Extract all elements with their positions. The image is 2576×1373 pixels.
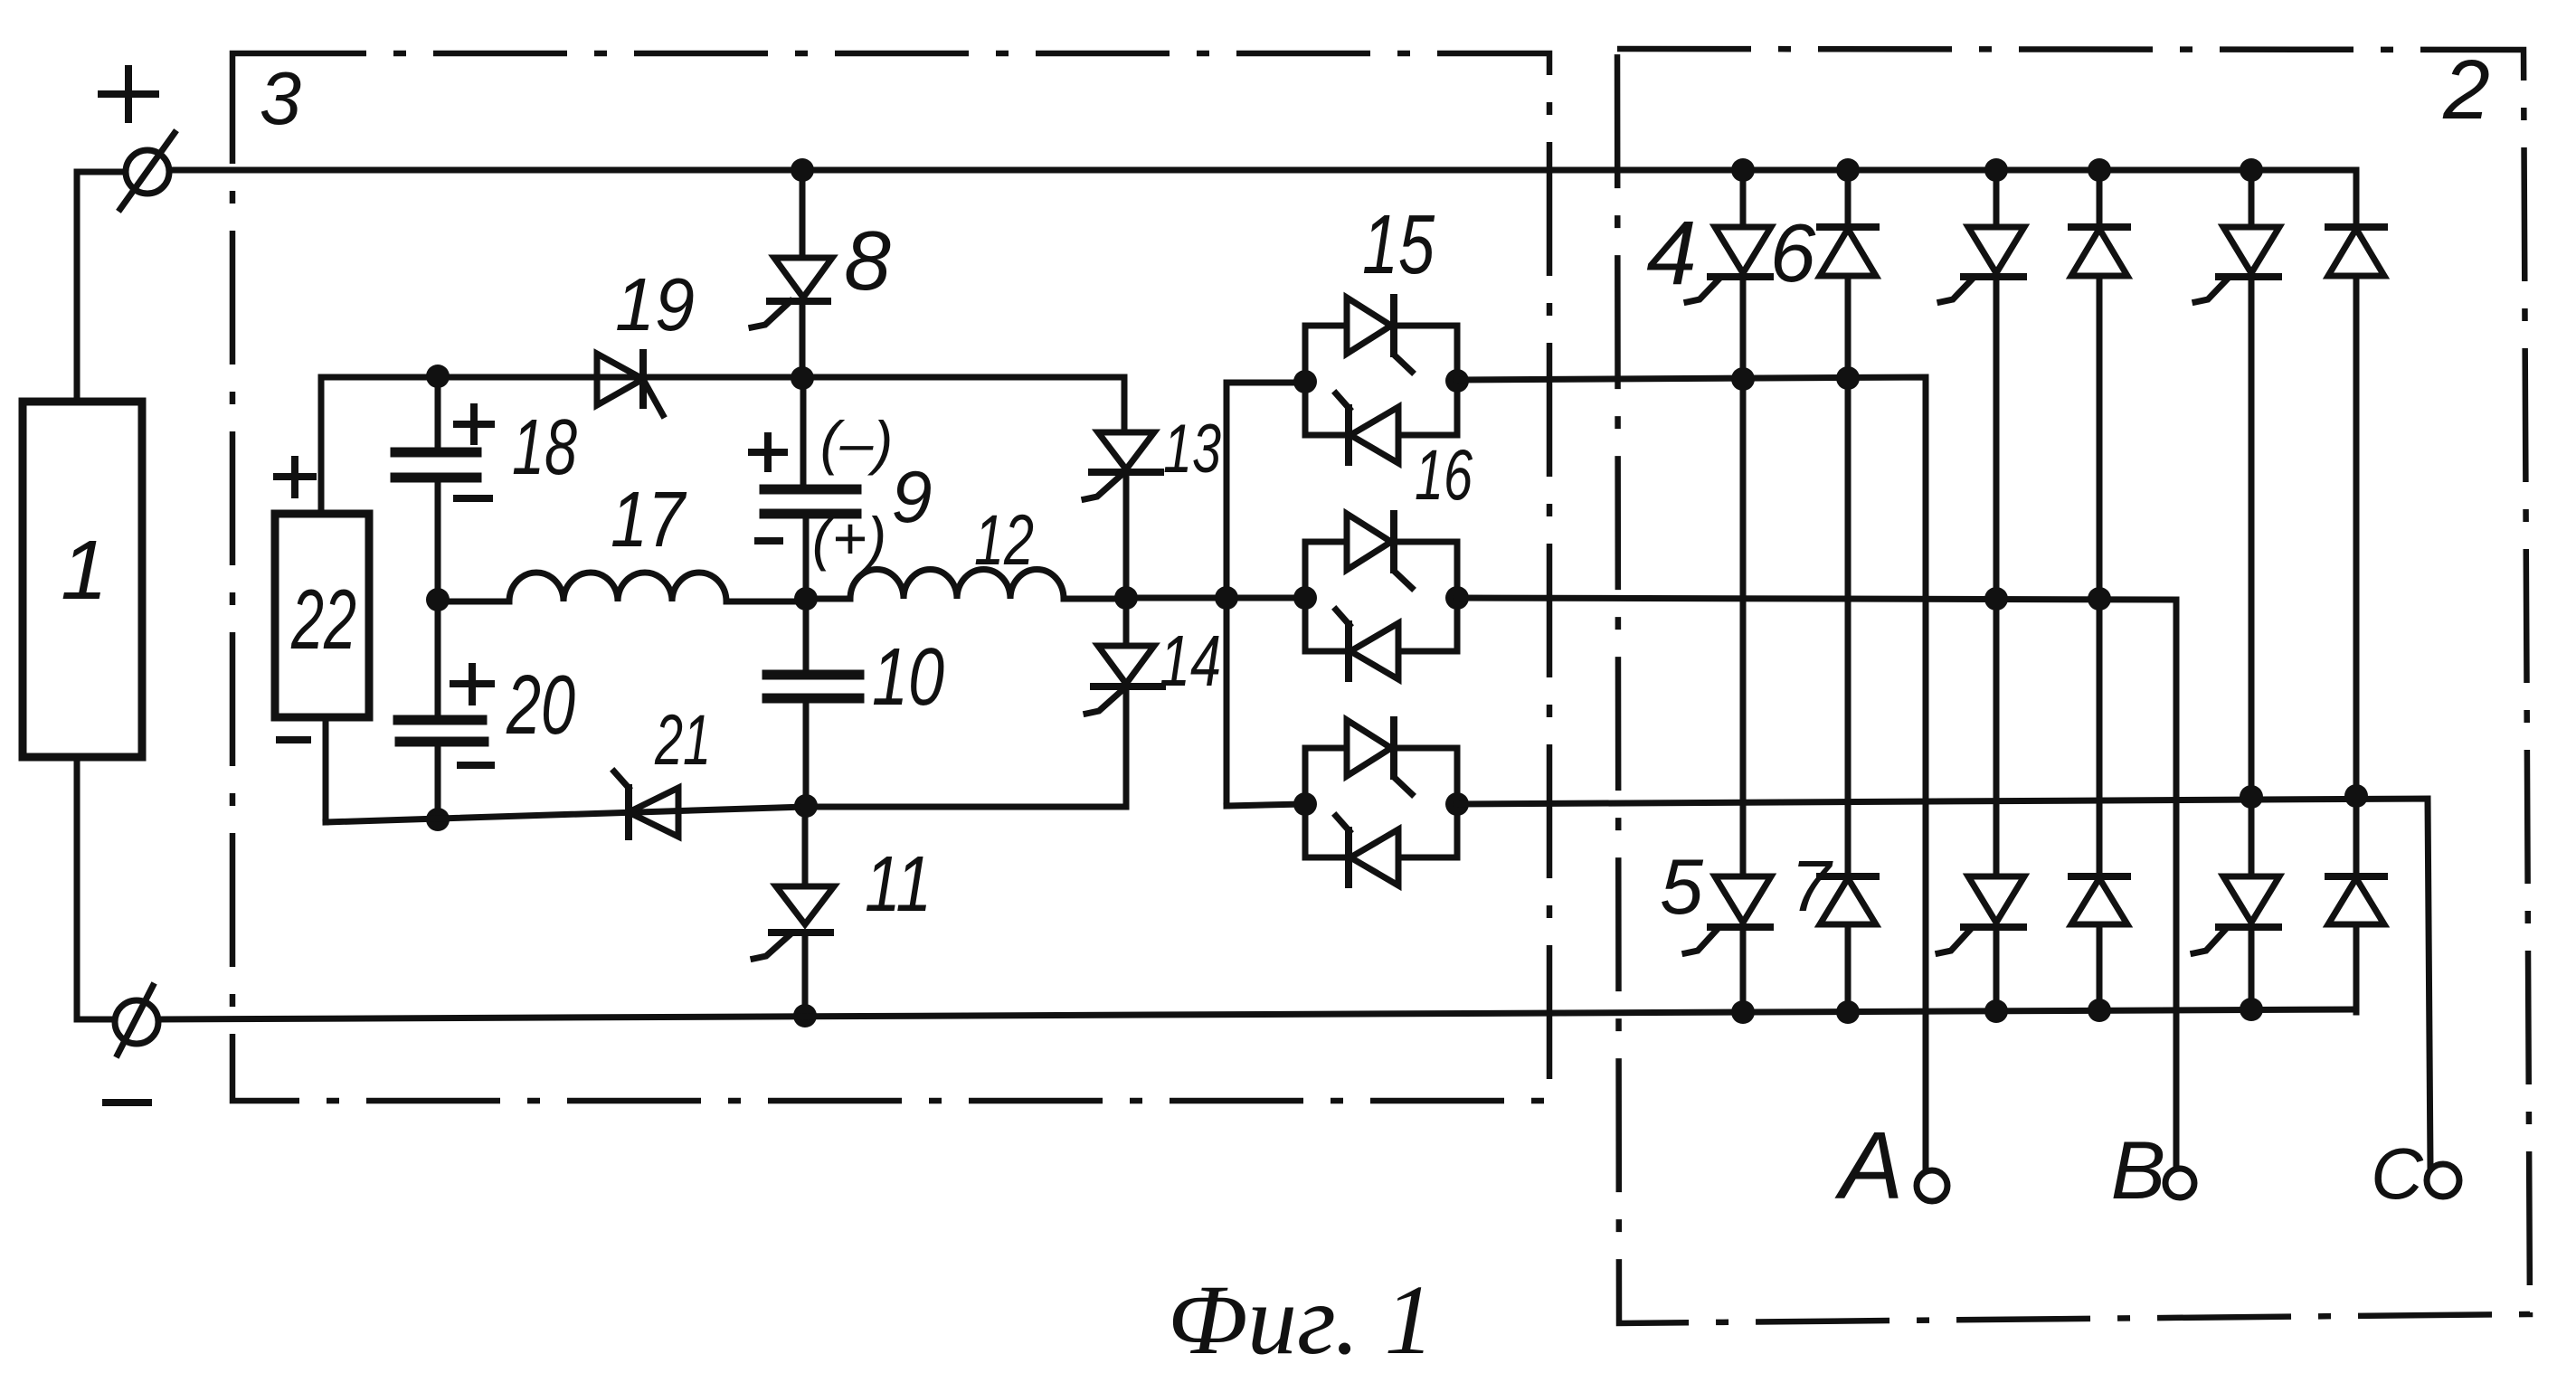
svg-text:13: 13 <box>1163 411 1221 488</box>
junction top bus / column 5 <box>2240 158 2263 182</box>
svg-text:11: 11 <box>865 840 932 928</box>
wire phase C <box>1457 799 2430 1168</box>
wire lower node row <box>326 807 1126 822</box>
svg-text:Фиг. 1: Фиг. 1 <box>1168 1264 1435 1373</box>
junction inductor 17 / capacitor 9 / capacitor 10 <box>794 587 818 611</box>
terminal - (negative output) <box>115 1000 158 1044</box>
plus sign of capacitor 18 <box>457 421 491 428</box>
junction negative bus / column 5 <box>2240 998 2263 1021</box>
junction top bus / column 2 <box>1836 158 1860 182</box>
plus sign of positive terminal <box>101 90 156 98</box>
thyristor pair 15 (antiparallel) <box>1305 326 1347 382</box>
wire phase A <box>1457 377 1926 1170</box>
svg-text:2: 2 <box>2442 43 2490 137</box>
svg-text:7: 7 <box>1791 846 1833 926</box>
svg-text:4: 4 <box>1646 203 1697 304</box>
dash-dot boundary of unit 3 (converter block) <box>232 53 1549 1101</box>
svg-text:3: 3 <box>260 56 301 140</box>
thyristor (column 5, upper) <box>2249 170 2255 227</box>
junction pair 16 right <box>1445 586 1469 610</box>
junction phase B / column 4 <box>2088 587 2111 611</box>
junction negative bus / column 4 <box>2088 999 2111 1022</box>
thyristor pair (phase C, unlabeled) <box>1305 748 1347 804</box>
junction pair bus / mid row <box>1215 586 1238 610</box>
thyristor 4 <box>1740 170 1747 227</box>
thyristor pair 16 (antiparallel) <box>1305 542 1347 598</box>
minus sign of capacitor 18 <box>457 495 489 502</box>
junction pair (phase C) left <box>1293 792 1317 816</box>
diode 6 <box>1845 170 1851 227</box>
thyristor 11 <box>802 807 809 886</box>
wire phase B <box>1457 598 2176 1169</box>
svg-text:22: 22 <box>290 572 356 667</box>
battery 1 (DC source) <box>23 402 142 757</box>
plus sign of capacitor 9 <box>752 449 784 456</box>
diode 19 <box>597 354 643 405</box>
capacitor 20 <box>435 600 441 719</box>
inductor 12 <box>806 569 1126 599</box>
terminal B <box>2165 1169 2194 1198</box>
thyristor (column 3, upper) <box>1994 170 2000 227</box>
svg-text:B: B <box>2111 1125 2166 1217</box>
junction mid row / thyristors 13 14 <box>1114 586 1138 610</box>
minus sign of capacitor 20 <box>460 762 491 769</box>
minus sign of resistor 22 <box>279 736 308 743</box>
svg-text:C: C <box>2371 1133 2424 1214</box>
capacitor 9 <box>800 378 807 488</box>
thyristor 13 <box>1098 432 1154 469</box>
svg-text:(–): (–) <box>820 409 894 476</box>
wire pair bus bottom corner <box>1226 804 1305 806</box>
wire column 6 bottom corner <box>2353 924 2360 1009</box>
junction phase A / column 2 <box>1836 366 1860 390</box>
junction top bus / column 1 <box>1731 158 1755 182</box>
junction capacitor 18 / control row <box>426 365 450 388</box>
wire pair bus top corner <box>1226 380 1305 386</box>
junction pair 15 right <box>1445 369 1469 393</box>
wire pair bus vertical <box>1224 383 1230 806</box>
svg-text:A: A <box>1834 1113 1904 1219</box>
wire battery negative lead <box>77 757 115 1019</box>
svg-text:5: 5 <box>1660 844 1704 931</box>
wire resistor 22 bottom lead <box>323 717 329 822</box>
junction negative bus / column 2 <box>1836 1000 1860 1024</box>
capacitor 10 <box>803 599 810 674</box>
svg-text:10: 10 <box>872 632 944 723</box>
plus sign of capacitor 20 <box>453 680 491 687</box>
plus sign of resistor 22 <box>277 473 313 480</box>
wire resistor 22 top lead <box>318 377 325 514</box>
svg-text:14: 14 <box>1160 620 1221 701</box>
terminal A <box>1917 1170 1947 1201</box>
thyristor (column 5, lower) <box>2223 876 2279 923</box>
junction top bus / thyristor 8 <box>791 158 814 182</box>
inductor 17 <box>438 573 806 601</box>
junction thyristor 8 / control row <box>791 366 814 390</box>
svg-text:12: 12 <box>974 499 1034 580</box>
thyristor 5 <box>1715 876 1771 923</box>
junction negative bus / column 1 <box>1731 1000 1755 1024</box>
svg-text:20: 20 <box>506 658 575 752</box>
svg-text:15: 15 <box>1362 197 1435 291</box>
diode 7 <box>1820 873 1876 880</box>
terminal + (positive output) <box>126 150 169 194</box>
junction phase A / column 1 <box>1731 367 1755 391</box>
svg-text:1: 1 <box>61 523 108 617</box>
minus sign of capacitor 9 <box>758 537 780 544</box>
junction pair (phase C) right <box>1445 792 1469 816</box>
junction capacitor 20 / lower row <box>426 808 450 831</box>
wire battery positive lead <box>77 172 126 402</box>
junction phase B / column 3 <box>1984 587 2008 611</box>
junction pair 15 left <box>1293 370 1317 393</box>
svg-text:17: 17 <box>611 476 687 563</box>
diode (column 4, upper) <box>2097 170 2103 227</box>
junction phase C / column 6 <box>2344 784 2368 808</box>
diode (column 6, upper) <box>2328 223 2384 231</box>
svg-text:9: 9 <box>891 457 932 538</box>
wire negative bus (bottom) <box>158 1009 2356 1019</box>
junction capacitor 10 / lower row <box>794 794 818 818</box>
wire control node row <box>321 377 1124 432</box>
dash-dot boundary of unit 2 (inverter bridge block) <box>1617 49 2530 1323</box>
capacitor 18 <box>435 376 441 451</box>
thyristor (column 3, lower) <box>1968 876 2024 923</box>
diode 21 <box>629 788 678 837</box>
junction top bus / column 4 <box>2088 158 2111 182</box>
wire mid row to pair bus <box>1126 595 1305 601</box>
svg-text:21: 21 <box>654 699 711 780</box>
svg-text:16: 16 <box>1415 434 1473 515</box>
diode (column 6, lower) <box>2328 873 2384 880</box>
svg-text:8: 8 <box>844 213 891 308</box>
svg-text:18: 18 <box>512 403 577 491</box>
junction pair 16 left <box>1293 586 1317 610</box>
thyristor 8 <box>800 170 806 258</box>
svg-text:6: 6 <box>1770 208 1816 299</box>
junction negative bus / column 3 <box>1984 999 2008 1023</box>
minus sign of negative terminal <box>106 1099 148 1106</box>
terminal C <box>2427 1164 2459 1197</box>
svg-text:(+): (+) <box>812 505 887 572</box>
svg-text:19: 19 <box>615 262 695 346</box>
junction phase C / column 5 <box>2240 785 2263 809</box>
thyristor 14 <box>1123 598 1130 646</box>
junction capacitor 18/20 / inductor 17 <box>426 588 450 611</box>
wire positive bus (top) <box>169 170 2356 223</box>
junction thyristor 11 / negative bus <box>793 1004 817 1027</box>
resistor 22 (battery element) <box>275 514 369 717</box>
junction top bus / column 3 <box>1984 158 2008 182</box>
diode (column 4, lower) <box>2071 873 2127 880</box>
